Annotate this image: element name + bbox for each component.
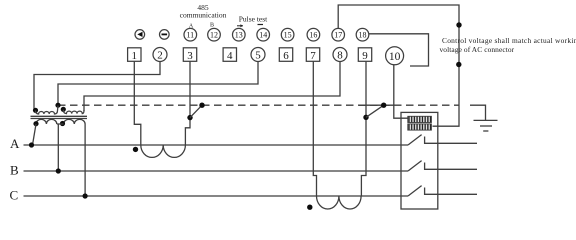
svg-text:17: 17: [334, 31, 342, 40]
svg-text:communication: communication: [180, 11, 227, 20]
terminal 15: [281, 28, 294, 41]
wire terminal 8 to PT2 secondary right: [84, 62, 340, 112]
terminal 13: [233, 28, 246, 41]
wire terminal 17 to relay strip: [338, 5, 459, 126]
junction dot CT-A link top on common: [199, 103, 204, 108]
junction dot CT-C link top on common: [381, 103, 386, 108]
junction dot below line A at CT-A: [133, 147, 138, 152]
wire PT1 primary left to line A: [33, 124, 37, 145]
svg-text:15: 15: [284, 31, 292, 40]
terminal 4: [223, 48, 236, 62]
phase line A: [24, 144, 409, 146]
svg-text:Pulse test: Pulse test: [239, 15, 268, 24]
svg-text:7: 7: [310, 50, 316, 62]
label control voltage note: [440, 36, 576, 54]
terminal 2: [153, 48, 167, 62]
terminal 9: [358, 48, 371, 62]
junction dot PT2 secondary left: [61, 107, 66, 112]
ground: [470, 105, 498, 131]
terminal aux minus: [160, 30, 170, 40]
junction dot common / dashed line start: [55, 103, 60, 108]
switch phase A blade: [408, 135, 422, 145]
wire PT2 primary right to line C: [84, 124, 86, 196]
wire terminal 5 to common junction: [58, 62, 258, 106]
solid segment of common line near CT-C link: [359, 104, 394, 106]
PT2 primary winding: [64, 119, 86, 124]
PT1 secondary winding: [36, 106, 59, 114]
wire terminal 10 to relay strip: [394, 65, 408, 119]
terminal 18: [356, 28, 369, 41]
svg-text:18: 18: [359, 31, 367, 40]
terminal 8: [333, 48, 347, 62]
svg-text:Control voltage shall match ac: Control voltage shall match actual worki…: [442, 36, 576, 45]
switch phase B contact and out wire: [425, 163, 477, 170]
terminal 3: [183, 48, 196, 62]
wire terminal 9 to CT-C right: [361, 62, 366, 197]
junction dot line C tap: [83, 193, 88, 198]
svg-text:A: A: [10, 136, 20, 151]
svg-text:5: 5: [255, 49, 261, 61]
svg-text:1: 1: [132, 50, 138, 62]
switch phase C blade: [408, 186, 422, 196]
CT-C link blade: [366, 105, 384, 117]
junction dot CT-C link bottom: [363, 115, 368, 120]
wire PT primary link: [57, 123, 64, 125]
label 485 communication: [180, 3, 227, 20]
svg-text:12: 12: [210, 31, 218, 40]
svg-text:14: 14: [259, 31, 267, 40]
wire terminal 2 to PT1 secondary left: [34, 62, 160, 111]
junction dot CT-A link bottom: [187, 115, 192, 120]
terminal 14: [257, 28, 270, 41]
CT-A winding: [141, 145, 186, 157]
svg-text:2: 2: [157, 49, 163, 61]
junction dot below line C at CT-C: [307, 205, 312, 210]
svg-text:voltage of AC connector: voltage of AC connector: [440, 45, 515, 54]
svg-text:11: 11: [186, 31, 194, 40]
wire terminal 1 to CT-A left: [134, 62, 141, 146]
svg-text:B: B: [10, 163, 19, 178]
svg-text:6: 6: [283, 50, 289, 62]
relay terminal strip: [408, 116, 432, 130]
svg-text:8: 8: [337, 49, 343, 61]
svg-text:10: 10: [389, 51, 401, 63]
CT-A link blade: [190, 105, 202, 117]
junction dot PT primaries common: [60, 121, 65, 126]
CT-C winding: [317, 196, 362, 209]
junction dot on control wire upper: [456, 22, 461, 27]
wire terminal 18 stub: [369, 34, 429, 66]
PT2 secondary winding: [63, 110, 84, 114]
junction dot PT1 primary left: [33, 121, 38, 126]
terminal 11: [184, 28, 197, 41]
svg-text:13: 13: [235, 31, 243, 40]
pulse test arrow: [237, 24, 243, 27]
relay box: [401, 112, 438, 209]
terminal 16: [307, 28, 320, 41]
terminal 5: [251, 48, 265, 62]
svg-text:3: 3: [187, 50, 193, 62]
svg-text:16: 16: [309, 31, 317, 40]
switch phase C contact and out wire: [425, 188, 477, 195]
PT1 primary winding: [36, 119, 57, 124]
phase line B: [24, 170, 409, 172]
switch phase B blade: [408, 161, 422, 171]
terminal 12: [208, 28, 221, 41]
terminal 1: [128, 48, 141, 62]
terminal 17: [332, 28, 345, 41]
svg-text:4: 4: [227, 50, 233, 62]
junction dot on control wire lower: [456, 62, 461, 67]
terminal 7: [306, 48, 319, 62]
svg-text:B: B: [210, 23, 214, 29]
terminal aux plus: [135, 30, 145, 40]
svg-text:9: 9: [362, 50, 368, 62]
phase line C: [24, 195, 409, 197]
PT core bars: [31, 116, 88, 118]
wire terminal 3 to CT-A right: [185, 62, 190, 146]
junction dot line A tap: [29, 142, 34, 147]
pulse test minus: [258, 24, 264, 26]
junction dot line B tap: [56, 168, 61, 173]
dashed common line: [58, 104, 460, 106]
switch phase A contact and out wire: [425, 137, 477, 144]
wire PT primaries to line B: [57, 124, 59, 171]
terminal 6: [279, 48, 292, 62]
svg-text:C: C: [10, 188, 19, 203]
terminal 10: [386, 47, 404, 65]
wire terminal 7 to CT-C left: [313, 62, 316, 197]
junction dot PT1 secondary left: [33, 108, 38, 113]
